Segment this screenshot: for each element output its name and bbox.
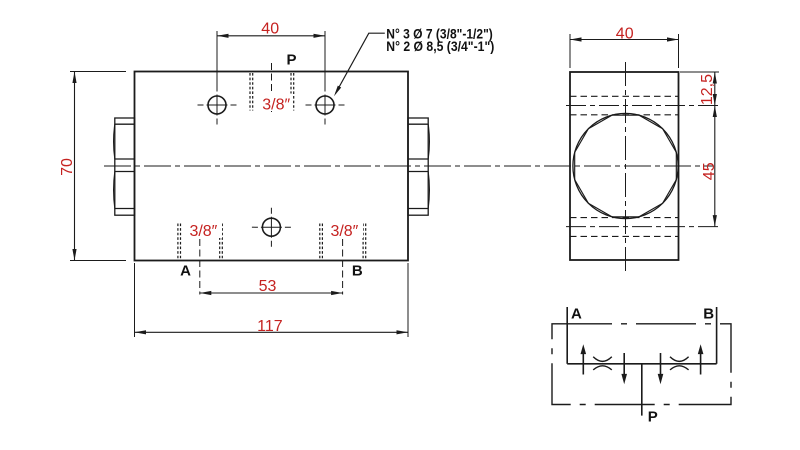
schematic label A [571, 306, 582, 323]
dimension 70 left [59, 72, 126, 261]
side view port centerline lower [566, 226, 719, 228]
svg-text:40: 40 [616, 26, 634, 43]
label A [180, 263, 191, 280]
hole bottom-center [252, 208, 291, 247]
label P [287, 52, 297, 69]
label B [352, 263, 363, 280]
down arrow right [658, 353, 664, 384]
down arrow left [621, 353, 627, 384]
schematic line A [566, 307, 568, 364]
schematic line B [716, 307, 718, 364]
svg-text:B: B [352, 263, 363, 280]
svg-text:3/8″: 3/8″ [189, 223, 217, 240]
hole top-right [306, 86, 345, 125]
svg-text:P: P [648, 409, 658, 426]
thread bore circle [573, 113, 678, 218]
schematic label B [703, 306, 714, 323]
port P thread lines [250, 73, 294, 111]
dimension 45 [701, 106, 718, 227]
svg-text:3/8″: 3/8″ [262, 96, 290, 113]
dimension 40 side [570, 26, 679, 68]
hole top-left [198, 86, 237, 125]
svg-text:117: 117 [257, 318, 283, 335]
up arrow right [698, 344, 704, 374]
svg-text:A: A [571, 306, 582, 323]
dimension 40 top [217, 20, 325, 86]
svg-text:B: B [703, 306, 714, 323]
port A size text 3/8 [186, 222, 222, 240]
port A centerline [199, 239, 201, 295]
annotation text line 2 [386, 39, 494, 54]
schematic line P [641, 364, 643, 416]
left plug boss [114, 118, 135, 215]
side view hidden lines [570, 96, 679, 236]
port B size text 3/8 [327, 222, 363, 240]
dimension 117 bottom [135, 263, 409, 337]
port A thread lines [178, 224, 222, 261]
svg-text:12,5: 12,5 [699, 74, 716, 105]
main block outline [135, 72, 409, 261]
schematic label P [648, 409, 658, 426]
svg-text:A: A [180, 263, 191, 280]
orifice right [670, 357, 689, 370]
schematic rail [567, 363, 716, 365]
main horizontal centerline [104, 165, 713, 167]
port P centerline [271, 63, 273, 113]
svg-text:70: 70 [59, 158, 76, 176]
port P size text 3/8 [261, 94, 292, 114]
side view vertical centerline [625, 62, 627, 272]
orifice left [593, 357, 612, 370]
svg-text:45: 45 [701, 162, 718, 180]
svg-text:40: 40 [261, 20, 279, 37]
annotation text line 1 [386, 27, 493, 42]
svg-text:N° 2 Ø 8,5 (3/4"-1"): N° 2 Ø 8,5 (3/4"-1") [386, 39, 494, 54]
svg-text:P: P [287, 52, 297, 69]
side view outline [570, 72, 679, 260]
svg-text:3/8″: 3/8″ [330, 223, 358, 240]
right plug boss [408, 118, 429, 215]
port B thread lines [320, 224, 366, 261]
schematic enclosure dashed box [552, 324, 731, 405]
annotation leader arrow [334, 33, 385, 96]
up arrow left [581, 344, 587, 374]
svg-text:53: 53 [259, 278, 277, 295]
side view port centerline upper [566, 105, 719, 107]
dimension 53 bottom [200, 278, 343, 295]
dimension 12,5 [680, 72, 719, 106]
port B centerline [342, 239, 344, 295]
